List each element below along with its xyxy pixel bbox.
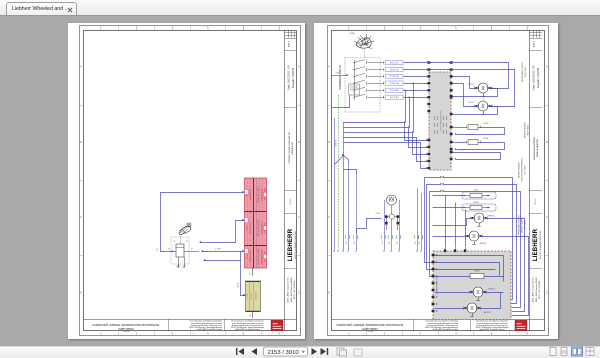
svg-text:1700: 1700 <box>389 241 391 245</box>
svg-text:1: 1 <box>348 26 350 30</box>
svg-text:M: M <box>477 216 482 220</box>
svg-text:MIRROR HEATING: MIRROR HEATING <box>524 122 527 138</box>
svg-text:M: M <box>470 306 475 310</box>
svg-text:K1700 T.30: K1700 T.30 <box>250 188 252 200</box>
svg-text:A: A <box>298 66 300 69</box>
svg-text:CONTROL STAGE SUPPORT-UP: CONTROL STAGE SUPPORT-UP <box>288 132 291 164</box>
svg-text:SOCKET: SOCKET <box>251 293 253 300</box>
svg-text:B: B <box>328 141 330 144</box>
svg-text:LEFT SIDE: LEFT SIDE <box>525 165 527 175</box>
svg-text:85: 85 <box>186 241 188 243</box>
svg-text:6: 6 <box>526 26 528 30</box>
svg-text:D: D <box>328 291 330 294</box>
svg-text:A0010 ST4 OUT1: A0010 ST4 OUT1 <box>257 186 260 203</box>
svg-text:RIGHT BOX: RIGHT BOX <box>525 66 527 77</box>
svg-text:ТЕХНИЧЕСКОЕ ОБСЛУЖИВАНИЕ "ЛИБХ: ТЕХНИЧЕСКОЕ ОБСЛУЖИВАНИЕ "ЛИБХЕРР" ДЛЯ К… <box>93 323 160 326</box>
svg-text:MIRROR HEATING: MIRROR HEATING <box>518 162 521 178</box>
svg-text:PROJECT: PROJECT <box>366 330 373 332</box>
svg-text:1: 1 <box>245 220 247 221</box>
svg-text:MIRROR-HEATING: MIRROR-HEATING <box>536 139 539 158</box>
svg-text:2: 2 <box>384 26 386 30</box>
svg-text:3: 3 <box>171 26 173 30</box>
svg-text:A914→A924 Standard 50265→: A914→A924 Standard 50265→ <box>290 276 293 302</box>
svg-text:1: 1 <box>245 192 247 193</box>
svg-text:GmbH D-88457 Kirchdorf/Iller: GmbH D-88457 Kirchdorf/Iller Germany <box>197 329 223 331</box>
svg-text:2153 / 3910: 2153 / 3910 <box>268 350 300 356</box>
svg-text:X0307 MIRROR LEFT: X0307 MIRROR LEFT <box>437 274 439 295</box>
svg-text:LIEBHERR: LIEBHERR <box>533 228 539 261</box>
svg-text:31: 31 <box>250 273 252 275</box>
svg-text:GmbH D-88457 Kirchdorf/Iller: GmbH D-88457 Kirchdorf/Iller Germany <box>235 329 261 331</box>
svg-text:ТЕХНИЧЕСКОЕ ОБСЛУЖИВАНИЕ "ЛИБХ: ТЕХНИЧЕСКОЕ ОБСЛУЖИВАНИЕ "ЛИБХЕРР" ДЛЯ К… <box>337 323 404 326</box>
svg-text:MIRROR: MIRROR <box>484 312 491 314</box>
svg-text:3: 3 <box>171 332 173 336</box>
svg-text:DRIVE/EXTERIOR MIRROR: DRIVE/EXTERIOR MIRROR <box>522 158 524 182</box>
svg-text:X0305 MIRROR RIGHT: X0305 MIRROR RIGHT <box>441 110 443 132</box>
svg-text:Diese Zeichnung ist unser Eige: Diese Zeichnung ist unser Eigentum und d… <box>231 320 264 323</box>
svg-text:P1704 BN: P1704 BN <box>390 90 399 92</box>
svg-text:2: 2 <box>384 332 386 336</box>
svg-text:COORDINATE SWITCH: COORDINATE SWITCH <box>339 65 342 90</box>
svg-text:5: 5 <box>243 26 245 30</box>
svg-text:MIRROR: MIRROR <box>480 243 487 245</box>
svg-text:FRAME LEFT: FRAME LEFT <box>291 141 294 155</box>
svg-text:2: 2 <box>136 332 138 336</box>
svg-text:AUSRÜSTUNG BAUMASCHINEN GMBH: AUSRÜSTUNG BAUMASCHINEN GMBH <box>539 231 542 259</box>
svg-text:4: 4 <box>207 26 209 30</box>
svg-text:P1700 GY: P1700 GY <box>390 62 399 64</box>
svg-text:A914→A924 Standard 50265→: A914→A924 Standard 50265→ <box>535 276 538 302</box>
svg-text:5: 5 <box>491 332 493 336</box>
svg-text:Diese Zeichnung ist unser Eige: Diese Zeichnung ist unser Eigentum und d… <box>426 320 459 323</box>
svg-text:P1705 BU: P1705 BU <box>390 97 399 99</box>
svg-text:K1701 T.30: K1701 T.30 <box>250 222 252 234</box>
svg-text:K1702 T.30: K1702 T.30 <box>250 250 252 262</box>
svg-text:M: M <box>481 104 486 108</box>
svg-text:0.75 BK: 0.75 BK <box>215 249 222 251</box>
svg-text:C: C <box>298 216 300 219</box>
svg-text:WIPER FRONT: WIPER FRONT <box>261 187 263 201</box>
svg-text:A0010 ST4 OUT2: A0010 ST4 OUT2 <box>257 219 260 236</box>
svg-text:PROJECT: PROJECT <box>122 330 129 332</box>
svg-text:P1703 WH: P1703 WH <box>390 83 400 85</box>
svg-text:D: D <box>80 291 82 294</box>
svg-text:86: 86 <box>174 241 176 243</box>
svg-text:1700: 1700 <box>397 241 399 245</box>
svg-text:M: M <box>472 234 477 238</box>
svg-text:LR 22→LH 110 50265→: LR 22→LH 110 50265→ <box>539 279 541 299</box>
svg-text:R1707: R1707 <box>474 190 479 192</box>
svg-text:X16.14: X16.14 <box>238 282 240 287</box>
svg-text:A910→A914 Compact 922Tier→: A910→A914 Compact 922Tier→ <box>287 275 290 302</box>
svg-text:MIRROR+: MIRROR+ <box>488 216 495 218</box>
svg-text:A: A <box>80 66 82 69</box>
svg-text:1700: 1700 <box>346 241 348 245</box>
svg-text:3: 3 <box>419 332 421 336</box>
svg-text:Ausgabe: 03/2019: Ausgabe: 03/2019 <box>292 67 295 88</box>
svg-text:WASHER PUMP: WASHER PUMP <box>260 249 263 264</box>
svg-text:X2.1: X2.1 <box>157 248 159 251</box>
svg-text:30: 30 <box>168 249 170 251</box>
svg-text:2: 2 <box>136 26 138 30</box>
svg-text:1: 1 <box>100 26 102 30</box>
svg-text:MIRROR ADJUSTMENT: MIRROR ADJUSTMENT <box>518 214 521 235</box>
svg-text:4: 4 <box>455 26 457 30</box>
svg-text:1: 1 <box>245 251 247 252</box>
svg-text:P1702 GN: P1702 GN <box>390 76 399 78</box>
svg-text:1700: 1700 <box>415 241 417 245</box>
svg-text:Datte: 116.032.62 - 99: Datte: 116.032.62 - 99 <box>532 65 535 90</box>
svg-text:6: 6 <box>526 332 528 336</box>
svg-text:S1700: S1700 <box>349 33 354 35</box>
svg-text:6: 6 <box>278 26 280 30</box>
svg-text:Blatt 2: Blatt 2 <box>533 40 536 47</box>
svg-text:СХЕМА ЦЕПИ: СХЕМА ЦЕПИ <box>362 327 378 330</box>
svg-text:M: M <box>481 86 486 90</box>
svg-text:Ausgabe: 03/2019: Ausgabe: 03/2019 <box>537 67 540 88</box>
svg-text:AUSRÜSTUNG BAUMASCHINEN GMBH: AUSRÜSTUNG BAUMASCHINEN GMBH <box>294 231 297 259</box>
svg-text:30 15: 30 15 <box>246 226 248 231</box>
svg-text:LR 22→LH 110 50265→: LR 22→LH 110 50265→ <box>294 279 296 299</box>
svg-text:R1708: R1708 <box>474 202 479 204</box>
svg-text:A0010 ST4 OUT3: A0010 ST4 OUT3 <box>257 248 260 265</box>
svg-text:WIPER INTER: WIPER INTER <box>261 221 263 234</box>
svg-text:A910→A914 Compact 922Tier→: A910→A914 Compact 922Tier→ <box>532 275 535 302</box>
svg-text:5: 5 <box>243 332 245 336</box>
svg-text:1700: 1700 <box>419 241 421 245</box>
svg-text:Diese Zeichnung ist unser Eige: Diese Zeichnung ist unser Eigentum und d… <box>476 320 509 323</box>
svg-text:1700: 1700 <box>382 241 384 245</box>
svg-text:M: M <box>476 290 481 294</box>
svg-text:MIRROR ADJUSTMENT: MIRROR ADJUSTMENT <box>521 61 524 82</box>
svg-text:C: C <box>546 216 548 219</box>
svg-text:5: 5 <box>491 26 493 30</box>
svg-text:Datte: 116.032.61 - 99: Datte: 116.032.61 - 99 <box>287 65 290 90</box>
svg-text:R1709: R1709 <box>475 271 480 273</box>
svg-text:31000 GN: 31000 GN <box>335 139 337 147</box>
svg-text:30 15: 30 15 <box>246 254 248 259</box>
svg-text:C: C <box>328 216 330 219</box>
svg-text:A: A <box>328 66 330 69</box>
svg-text:K1703: K1703 <box>376 213 381 215</box>
svg-text:GmbH D-88457 Kirchdorf/Iller: GmbH D-88457 Kirchdorf/Iller Germany <box>479 329 505 331</box>
svg-text:3: 3 <box>419 26 421 30</box>
svg-text:P1701 YE: P1701 YE <box>390 69 399 71</box>
svg-text:MIRROR-HEATING: MIRROR-HEATING <box>521 217 524 233</box>
svg-text:B: B <box>80 141 82 144</box>
svg-text:LIEBHERR: LIEBHERR <box>288 228 294 261</box>
svg-text:R1705: R1705 <box>484 123 489 125</box>
svg-text:Bl. 116: Bl. 116 <box>290 199 292 204</box>
svg-text:X1600: X1600 <box>336 73 341 75</box>
svg-text:X1700: X1700 <box>247 293 249 298</box>
svg-text:4: 4 <box>455 332 457 336</box>
svg-text:4: 4 <box>207 332 209 336</box>
svg-text:GmbH D-88457 Kirchdorf/Iller: GmbH D-88457 Kirchdorf/Iller Germany <box>433 329 459 331</box>
svg-text:1: 1 <box>348 332 350 336</box>
svg-text:C: C <box>80 216 82 219</box>
svg-text:Bl. 116: Bl. 116 <box>535 199 537 204</box>
svg-text:B: B <box>298 141 300 144</box>
svg-text:MIRROR ADJUSTMENT.: MIRROR ADJUSTMENT. <box>533 136 536 160</box>
svg-text:Blatt 2: Blatt 2 <box>288 40 291 47</box>
svg-text:D: D <box>546 291 548 294</box>
svg-text:MIRROR+: MIRROR+ <box>488 289 495 291</box>
svg-text:D: D <box>298 291 300 294</box>
svg-text:A: A <box>546 66 548 69</box>
svg-text:1700: 1700 <box>354 241 356 245</box>
svg-text:31: 31 <box>250 315 252 317</box>
svg-text:87: 87 <box>191 249 193 251</box>
svg-text:1: 1 <box>100 332 102 336</box>
svg-text:B: B <box>546 141 548 144</box>
svg-text:6: 6 <box>278 332 280 336</box>
svg-text:R: R <box>353 92 355 94</box>
svg-text:СХЕМА ЦЕПИ: СХЕМА ЦЕПИ <box>118 327 134 330</box>
svg-text:R1706: R1706 <box>484 138 489 140</box>
svg-text:Diese Zeichnung ist unser Eige: Diese Zeichnung ist unser Eigentum und d… <box>190 320 223 323</box>
svg-text:M1706: M1706 <box>468 102 473 104</box>
svg-text:RIGHT SIDE: RIGHT SIDE <box>528 124 530 135</box>
